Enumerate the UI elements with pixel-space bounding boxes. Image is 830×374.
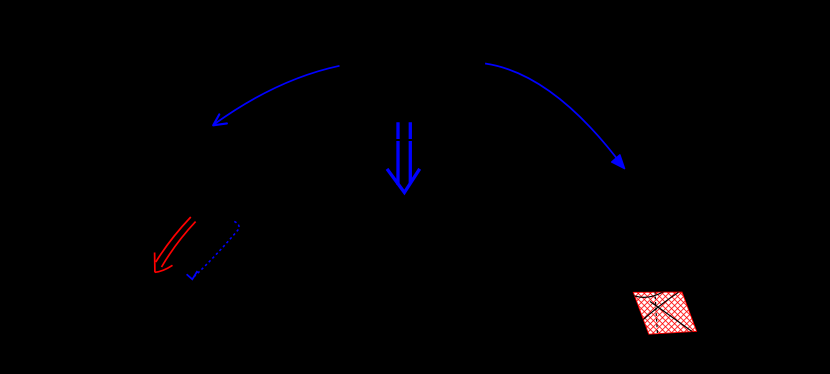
- blue dashed curved arrow shaft: [193, 221, 239, 278]
- red double-line arrow lower shaft: [162, 222, 196, 267]
- left curved blue arrow shaft: [215, 66, 340, 124]
- left curved blue arrow head: [213, 114, 227, 125]
- red crosshatched parallelogram highlight: [631, 291, 697, 334]
- central double downward arrow head: [388, 170, 419, 192]
- red double-line arrow upper shaft: [156, 217, 191, 262]
- right curved blue arrow head: [612, 155, 625, 169]
- right curved blue arrow shaft: [485, 64, 623, 168]
- central double downward arrow right shaft: [409, 122, 412, 184]
- blue dashed curved arrow head: [187, 271, 198, 279]
- central double downward arrow left shaft: [396, 122, 399, 185]
- black curves of underlying figure visible through highlight: [631, 291, 694, 334]
- red double-line arrow open head: [155, 253, 173, 273]
